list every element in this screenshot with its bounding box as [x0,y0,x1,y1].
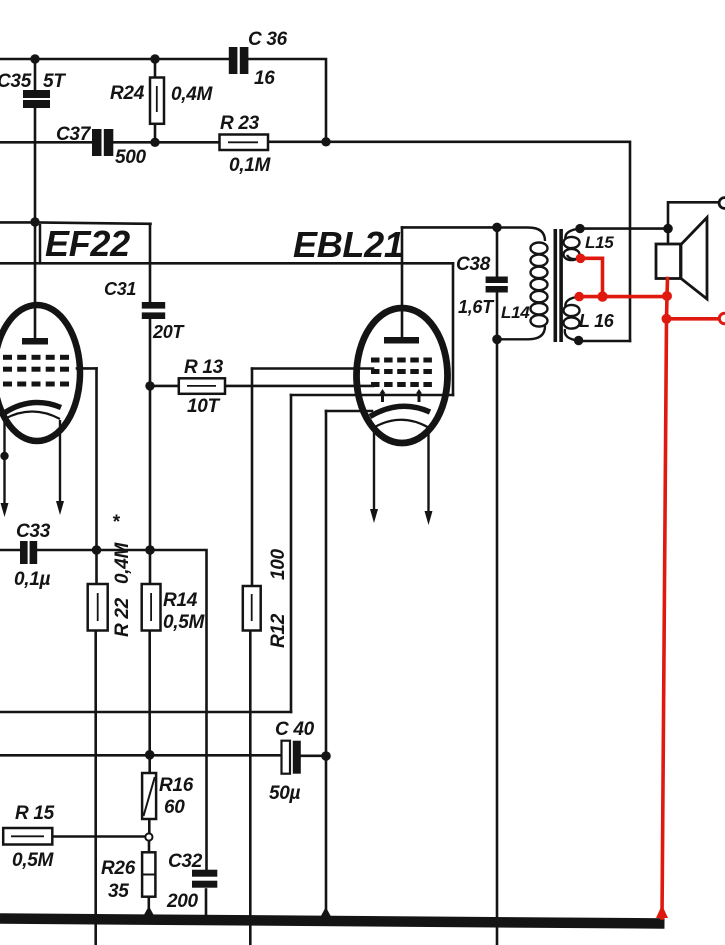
svg-text:EBL21: EBL21 [293,224,404,265]
wire C40 right lead [301,754,326,757]
resistor R15 [3,828,52,845]
resistor R16 with slash [142,773,156,819]
svg-text:C32: C32 [168,851,203,872]
resistor R22 [88,584,108,631]
svg-text:0,5M: 0,5M [163,612,206,633]
resistor R24 [150,59,164,142]
svg-text:10T: 10T [187,396,221,417]
wire EBL21 anode riser [401,227,404,337]
svg-text:16: 16 [254,68,275,89]
svg-text:R 22: R 22 [112,597,133,637]
svg-text:R12: R12 [268,613,289,648]
wire top rail y59 right of C36 [247,59,326,142]
wire anode riser x35 lower [34,108,37,339]
wire R15 right lead [52,835,145,838]
speaker [656,218,707,300]
wire C33 to corner x206 [37,550,207,870]
wire y142 R23 to right corner [268,142,630,341]
svg-text:C31: C31 [104,279,136,299]
resistor R13 [179,378,225,394]
EF22 filament lead right with arrow [56,420,64,515]
wire x150 EF22 box right to C31 [149,225,152,303]
wire R16 bottom to circle [148,819,151,833]
svg-text:L15: L15 [585,233,614,252]
red wire L15 bottom to junction [579,258,719,918]
wire EBL21 anode to C38 node [402,226,497,229]
wire x291 riser down [290,395,293,712]
svg-text:R14: R14 [163,590,198,611]
svg-text:EF22: EF22 [45,223,130,264]
transformer primary L14 [497,228,548,340]
svg-text:5T: 5T [43,71,66,92]
wire R13 right lead into tube [225,385,373,388]
svg-text:R26: R26 [101,858,136,879]
EF22 filament lead left with arrow [1,418,9,517]
svg-text:0,5M: 0,5M [12,850,55,871]
red wire L16 top to speaker column [579,295,667,299]
tube EBL21 envelope [357,308,448,443]
capacitor C38 [486,277,508,293]
wire R22 bottom to page edge [94,631,97,945]
EBL21 cathode arc [370,406,430,416]
capacitor C33 [20,541,37,564]
wire x326 C40 node to bus [325,756,328,917]
wire EF22 screen out y368 [77,367,97,370]
EBL21 beam plate hooks [383,392,420,402]
wire top rail y59 left [0,58,229,61]
red wire output stub [667,317,720,321]
wire R13 left lead [150,385,179,388]
svg-text:35: 35 [108,881,129,902]
EF22 cathode arc [5,403,61,413]
connector circle R16/R15 node [145,833,152,840]
EBL21 filament lead right with arrow [425,426,433,525]
resistor R14 [142,584,161,631]
wire x497 C38 top [496,227,499,276]
wire C33 left lead [0,549,20,552]
wire y142 left segment [0,141,92,144]
red terminal circle [719,313,725,323]
transformer secondary L15 [564,229,581,261]
svg-text:C35: C35 [0,71,32,92]
wire EBL21 cathode y411 [326,410,372,413]
wire R26 bottom to bus [148,897,151,916]
svg-text:C38: C38 [456,254,491,275]
svg-text:20T: 20T [152,322,185,342]
wire speaker node to box [667,229,670,244]
svg-text:C37: C37 [56,124,92,145]
svg-text:R24: R24 [110,83,145,104]
wire y142 C37 to R23 [113,141,220,144]
svg-text:60: 60 [164,797,185,818]
capacitor C31 [142,302,165,319]
capacitor C37 [92,129,113,156]
wire x453 drop to EBL21 beam plates [452,263,455,395]
wire x252 R12 riser [251,369,254,587]
resistor R23 [220,135,269,151]
svg-text:500: 500 [115,147,147,168]
svg-text:*: * [112,512,121,533]
EF22 grid dashes [3,355,69,387]
EF22 anode [22,338,48,345]
svg-text:R 13: R 13 [184,357,224,378]
svg-text:C 36: C 36 [248,29,288,50]
wire anode riser x35 upper [34,59,37,90]
resistor R26 two-part [142,852,155,896]
svg-text:R 15: R 15 [15,803,55,824]
svg-text:C33: C33 [16,521,51,542]
EBL21 anode [384,337,419,344]
svg-text:50µ: 50µ [269,783,301,804]
wire circle to R26 [148,841,151,853]
svg-text:0,4M: 0,4M [112,541,133,584]
svg-text:1,6T: 1,6T [458,297,495,317]
wire R12 to EBL21 grid y368 [252,367,373,370]
capacitor C40 electrolytic [282,741,301,774]
wire x96 screen riser to R22 [95,368,98,584]
wire R14 bottom to R16 [148,631,151,774]
wire y755 rail left of C40 [0,754,282,757]
svg-text:L 16: L 16 [579,311,615,331]
tube EF22 envelope [0,305,80,441]
svg-text:200: 200 [166,891,199,912]
wire C32 bottom to bus [205,890,208,922]
capacitor C36 [229,47,249,74]
red wire speaker down to bus [662,279,668,919]
tube label box EF22 [40,223,130,264]
transformer secondary L16 [564,297,580,341]
red junction dots [574,253,672,918]
EF22 filament arc [5,412,61,420]
resistor R12 [243,586,261,631]
wire beam plate rail y395 [291,394,453,397]
wire speaker node up and to terminal [668,202,720,228]
svg-text:100: 100 [268,548,289,580]
wire x326 riser to C40 node [325,411,328,756]
wire long rail y263 [0,262,453,265]
svg-text:C 40: C 40 [275,719,315,740]
speaker terminal circle [719,198,725,209]
ground bus [0,919,665,924]
wire x150 C31 to R13 junction [149,319,152,386]
wire L16 bottom to feedback riser [579,340,630,343]
capacitor C32 [192,870,217,888]
transformer core [554,229,563,342]
svg-text:0,4M: 0,4M [171,84,214,105]
EBL21 grid dashes [371,358,432,388]
svg-text:0,1M: 0,1M [229,155,272,176]
capacitor C35 [23,90,50,108]
svg-text:R 23: R 23 [220,113,260,134]
svg-text:L14: L14 [501,303,530,322]
EBL21 filament lead left with arrow [370,426,378,523]
wire L15 top to speaker node [580,227,668,230]
wire y712 rail [0,711,291,714]
EBL21 filament arc [374,420,429,428]
svg-text:0,1µ: 0,1µ [14,569,51,590]
wire R12 bottom to page edge [249,631,252,945]
svg-text:R16: R16 [159,775,194,796]
wire y222 to EF22 box top [0,222,151,223]
wire x497 C38 bottom to page edge [496,293,499,945]
wire x150 junction to R14 [149,386,152,584]
